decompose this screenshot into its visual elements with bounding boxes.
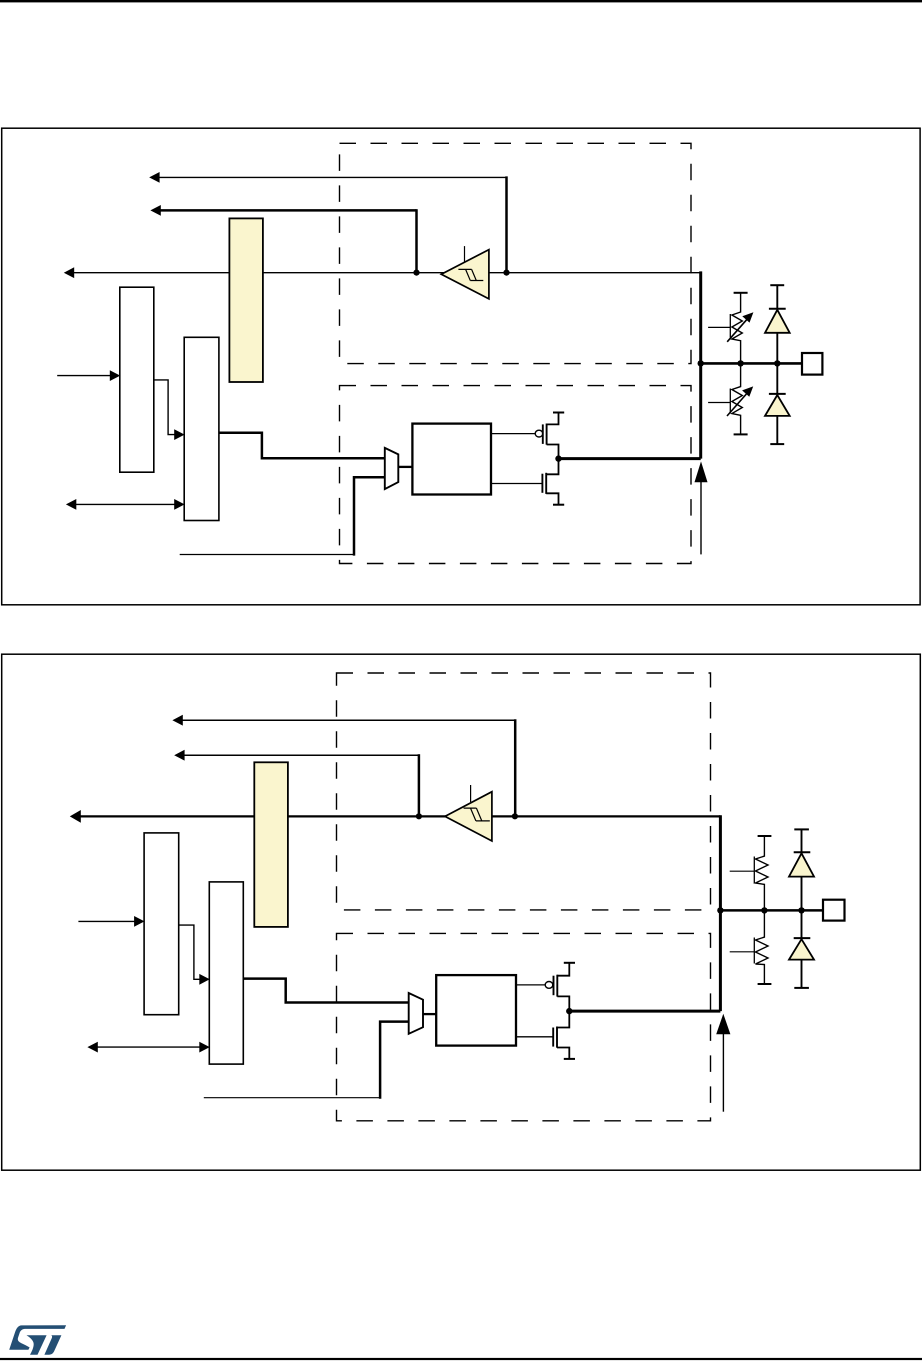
wire: AF input drop to schmitt output	[415, 209, 418, 272]
wire: analog line drop to pad net	[514, 719, 517, 816]
VDD_FT rail tick (diode D3)	[794, 828, 809, 830]
wire: alternate function output feed	[180, 477, 385, 555]
wire: output data register to mux	[243, 979, 408, 1003]
node: push-pull output	[566, 1008, 572, 1014]
transistor Q1 P-MOS	[491, 413, 564, 459]
diode D4 to VSS	[789, 910, 814, 988]
alternate function input arrow	[150, 205, 416, 216]
node: push-pull output	[555, 455, 561, 461]
resistor R2 pull-down (trimmable)	[708, 363, 753, 434]
figure 2 frame	[2, 654, 921, 1170]
VSS rail tick (pull-down)	[758, 983, 772, 985]
read line to input data register (bold)	[70, 810, 721, 823]
wire: pad net horizontal	[701, 362, 802, 365]
analog input arrow	[149, 172, 506, 183]
transistor Q3 P-MOS	[516, 963, 575, 1011]
resistor R4 pull-down	[730, 910, 768, 984]
node: schmitt output junction	[416, 813, 422, 819]
read/write shaded column (register file)	[229, 218, 263, 382]
output control box	[436, 975, 516, 1046]
wire: register step connector	[154, 380, 185, 440]
transistor Q2 N-MOS	[491, 459, 564, 505]
wire: pad column vertical	[699, 271, 702, 458]
wire: alternate function output feed	[204, 1022, 409, 1099]
input data register box	[144, 833, 179, 1015]
node: schmitt input junction	[512, 813, 518, 819]
I/O pad pin	[823, 900, 845, 921]
wire: pad column vertical	[719, 815, 722, 1011]
VDD rail tick (pull-up)	[734, 292, 748, 294]
node: schmitt input junction	[503, 270, 509, 276]
write arrow into input data register	[78, 916, 144, 927]
I/O pad pin	[802, 353, 822, 375]
read/write bidirectional arrow	[66, 499, 185, 510]
output mux	[409, 993, 437, 1034]
bit set/reset register box	[184, 337, 219, 520]
header rule	[0, 0, 922, 2]
read line to input data register	[64, 267, 701, 278]
resistor R1 pull-up (trimmable)	[708, 293, 753, 364]
bit set/reset register box	[209, 882, 243, 1064]
input data register box	[120, 287, 154, 472]
wire: output data register to mux	[219, 433, 385, 458]
node: pad net junction	[698, 360, 704, 366]
input driver dashed box (5V tolerant)	[337, 673, 711, 910]
VSS rail tick (pull-down)	[734, 433, 748, 435]
wire: output stage to pad column	[559, 457, 701, 460]
transistor Q4 N-MOS	[516, 1011, 575, 1059]
VSS rail tick (diode D4)	[794, 987, 809, 989]
diode D1 to VDD	[765, 285, 790, 363]
TTL Schmitt trigger U1	[441, 246, 489, 299]
write arrow into input data register	[57, 370, 120, 381]
VDD_FT rail tick (pull-up)	[758, 835, 772, 837]
input driver dashed box	[340, 143, 692, 363]
wire: pad net horizontal	[720, 909, 823, 912]
ST logo	[9, 1325, 66, 1354]
TTL Schmitt trigger U2	[445, 785, 492, 841]
output control box	[412, 424, 491, 495]
node: pad net junction	[717, 907, 723, 913]
VDD rail tick (diode D1)	[770, 284, 784, 286]
wire: AF input drop to schmitt output	[418, 754, 421, 816]
wire: analog line drop to pad net	[505, 176, 508, 272]
figure 1 frame	[2, 128, 920, 605]
diode D3 to VDD_FT	[789, 829, 814, 910]
analog input arrow	[172, 715, 515, 726]
node: schmitt output junction	[413, 270, 419, 276]
read/write bidirectional arrow	[87, 1042, 209, 1053]
VSS rail tick (diode D2)	[770, 443, 784, 445]
output driver dashed box (5V tolerant)	[337, 933, 711, 1120]
footer rule	[0, 1358, 922, 1360]
mode arrow (push-pull / open-drain)	[716, 1014, 730, 1112]
node: pull-up junction	[737, 360, 743, 366]
mode arrow (push-pull / open-drain)	[695, 461, 708, 554]
node: diode junction	[774, 360, 780, 366]
output mux	[385, 448, 413, 489]
output driver dashed box	[340, 386, 692, 564]
node: diode junction	[798, 907, 804, 913]
wire: output stage to pad column	[569, 1010, 720, 1013]
resistor R3 pull-up	[730, 836, 768, 910]
alternate function input arrow	[174, 750, 419, 761]
diode D2 to VSS	[765, 363, 790, 444]
read/write shaded column (register file)	[254, 762, 288, 927]
wire: register step connector	[179, 925, 210, 985]
node: pull-up junction	[761, 907, 767, 913]
